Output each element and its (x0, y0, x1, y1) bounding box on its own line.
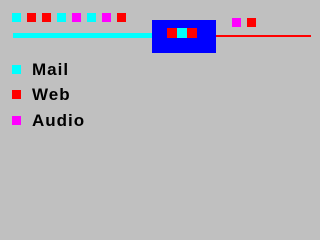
queued packet Q3 (Web, red) inside router (187, 28, 197, 38)
queued packet Q2 (Mail, cyan) inside router (177, 28, 187, 38)
legend label: Audio (32, 112, 85, 129)
legend swatch: Audio (magenta) (12, 116, 21, 125)
legend swatch: Mail (cyan) (12, 65, 21, 74)
packet P3 (Web, red) on input link (42, 13, 51, 22)
packet P8 (Web, red) on input link (117, 13, 126, 22)
packet P2 (Web, red) on input link (27, 13, 36, 22)
packet P9 (Audio, magenta) on output link (232, 18, 241, 27)
wire: input link (thick cyan) (13, 33, 153, 38)
packet P6 (Mail, cyan) on input link (87, 13, 96, 22)
legend label: Mail (32, 61, 69, 78)
packet P1 (Mail, cyan) on input link (12, 13, 21, 22)
packet P5 (Audio, magenta) on input link (72, 13, 81, 22)
router/queue box (152, 20, 216, 53)
packet P7 (Audio, magenta) on input link (102, 13, 111, 22)
wire: output link (thin red) (216, 35, 311, 37)
legend swatch: Web (red) (12, 90, 21, 99)
packet P10 (Web, red) on output link (247, 18, 256, 27)
packet P4 (Mail, cyan) on input link (57, 13, 66, 22)
legend label: Web (32, 86, 71, 103)
queued packet Q1 (Web, red) inside router (167, 28, 177, 38)
